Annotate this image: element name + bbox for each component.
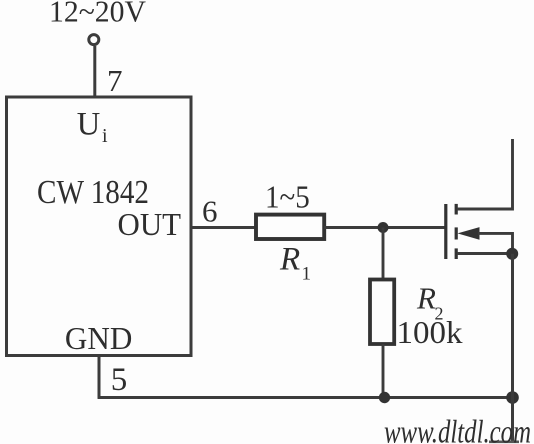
wire source down to bottom rail and below: [511, 254, 514, 441]
svg-text:R: R: [416, 281, 436, 316]
svg-text:1~5: 1~5: [265, 179, 310, 215]
svg-text:R: R: [279, 241, 300, 277]
node R2 bottom junction: [379, 392, 390, 403]
svg-text:U: U: [77, 107, 100, 143]
wire end bar bottom right: [489, 440, 519, 443]
svg-text:7: 7: [107, 63, 123, 98]
MOSFET Q1 body channel tick: [455, 227, 458, 239]
wire R1 to MOSFET gate: [324, 226, 445, 229]
MOSFET Q1 drain lead wire: [457, 139, 513, 209]
svg-text:12~20V: 12~20V: [49, 0, 146, 29]
svg-text:5: 5: [111, 362, 128, 398]
IC U1 CW1842 box: [7, 97, 192, 356]
MOSFET Q1 source lead wire: [457, 252, 513, 255]
MOSFET Q1 source channel tick: [455, 248, 458, 259]
MOSFET Q1 drain channel tick: [455, 204, 458, 215]
MOSFET Q1 body arrow: [458, 227, 480, 240]
wire GND pin 5: [98, 356, 101, 399]
node junction R1 R2 gate: [378, 222, 389, 233]
svg-text:100k: 100k: [397, 314, 463, 350]
svg-text:GND: GND: [65, 320, 132, 356]
svg-text:i: i: [102, 125, 108, 147]
input terminal circle: [89, 35, 99, 45]
wire junction down to R2: [382, 228, 385, 282]
MOSFET Q1 gate bar: [444, 204, 447, 259]
bottom rail wire: [98, 396, 514, 399]
svg-text:1: 1: [302, 264, 312, 285]
resistor R2 body: [370, 280, 394, 345]
wire R2 to bottom rail: [382, 344, 385, 399]
svg-text:www.dltdl.com: www.dltdl.com: [384, 415, 531, 444]
wire OUT pin6 to R1: [191, 226, 257, 229]
node bottom right junction: [506, 391, 519, 404]
resistor R1 body: [256, 215, 324, 239]
svg-text:6: 6: [202, 194, 218, 229]
MOSFET Q1 body lead wire: [478, 233, 513, 253]
node source body junction: [506, 248, 518, 260]
wire terminal to pin 7: [93, 46, 96, 98]
svg-text:OUT: OUT: [118, 206, 182, 242]
